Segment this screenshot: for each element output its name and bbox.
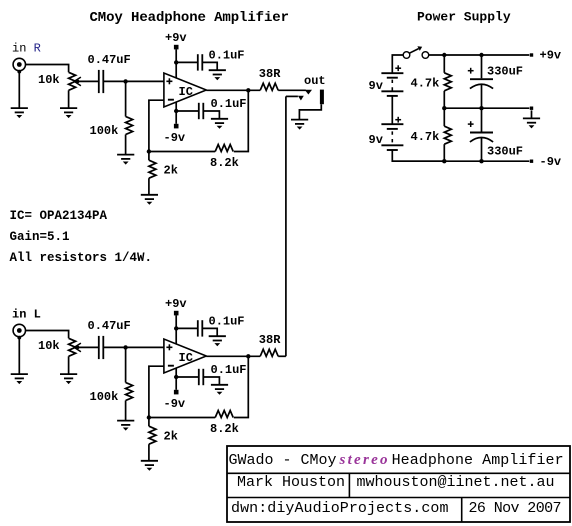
headphone jack body <box>320 90 324 105</box>
svg-text:9v: 9v <box>369 133 383 147</box>
ground <box>141 195 158 205</box>
wire cap to op-amp + input <box>103 80 164 82</box>
wire jack to pot top <box>26 65 69 73</box>
battery BT1 9v <box>381 65 403 96</box>
svg-text:out: out <box>304 74 326 88</box>
wire battery + to switch <box>392 55 403 73</box>
resistor 8.2k (feedback, R) <box>215 145 233 152</box>
svg-text:CMoy Headphone Amplifier: CMoy Headphone Amplifier <box>90 10 290 26</box>
ground <box>211 119 228 129</box>
svg-text:38R: 38R <box>259 67 281 81</box>
node -9v (V- pin) <box>164 368 186 411</box>
headphone jack tip contact <box>305 90 312 95</box>
node vground junction 2 <box>479 106 483 110</box>
svg-text:26 Nov 2007: 26 Nov 2007 <box>469 500 562 517</box>
resistor 100k (bias, L) <box>126 347 133 420</box>
wire cap to op-amp + input <box>103 346 164 348</box>
ground <box>11 108 28 118</box>
wire virtual ground rail <box>444 107 529 109</box>
resistor 38R (output, R) <box>260 83 278 90</box>
wire to ground symbol <box>531 110 533 118</box>
svg-text:100k: 100k <box>90 124 119 138</box>
capacitor 0.47uF (input coupling, R) <box>99 70 104 93</box>
wire op-amp output <box>206 89 260 91</box>
capacitor 0.1uF (V+ bypass, R) <box>176 54 217 70</box>
ground <box>211 385 228 395</box>
svg-text:330uF: 330uF <box>487 64 523 78</box>
svg-text:Power Supply: Power Supply <box>417 10 511 25</box>
svg-text:4.7k: 4.7k <box>411 130 440 144</box>
ground <box>117 155 134 165</box>
node junction (cap/100k/+in) <box>123 345 127 349</box>
svg-text:0.1uF: 0.1uF <box>209 314 245 328</box>
svg-text:0.1uF: 0.1uF <box>211 363 247 377</box>
svg-text:-9v: -9v <box>540 155 562 169</box>
resistor 2k (gain set, L) <box>149 418 156 461</box>
svg-text:8.2k: 8.2k <box>210 422 239 436</box>
svg-text:2k: 2k <box>164 430 178 444</box>
svg-text:4.7k: 4.7k <box>411 77 440 91</box>
svg-text:Gain=5.1: Gain=5.1 <box>10 230 70 244</box>
resistor 100k (bias, R) <box>126 81 133 154</box>
wire battery link <box>391 96 393 124</box>
resistor 8.2k (feedback, L) <box>215 411 233 418</box>
ground <box>523 118 540 128</box>
input jack J1 (in R) <box>13 58 25 73</box>
svg-text:9v: 9v <box>369 79 383 93</box>
resistor 4.7k (divider upper) <box>444 55 451 108</box>
node -9v rail junction 2 <box>479 159 483 163</box>
ground <box>291 120 308 130</box>
ground <box>60 108 77 118</box>
svg-text:IC= OPA2134PA: IC= OPA2134PA <box>10 209 108 223</box>
svg-text:Mark Houston: Mark Houston <box>237 474 345 491</box>
svg-text:10k: 10k <box>38 73 60 87</box>
capacitor 0.47uF (input coupling, L) <box>99 336 104 359</box>
svg-text:dwn:diyAudioProjects.com: dwn:diyAudioProjects.com <box>231 500 449 517</box>
wire riser from left channel 38R <box>285 96 287 356</box>
capacitor 0.1uF (V+ bypass, L) <box>176 320 217 336</box>
battery BT2 9v <box>381 117 403 150</box>
op-amp U1A (IC) <box>164 73 206 107</box>
node output junction <box>246 354 250 358</box>
title block row 3 text <box>231 500 562 517</box>
wire 38R to jack tip <box>278 89 306 91</box>
node junction (fb/2k/-in) <box>147 415 151 419</box>
capacitor 330uF (lower electrolytic) <box>468 108 493 161</box>
wire jack sleeve to ground <box>299 104 321 119</box>
node vground junction 1 <box>442 106 446 110</box>
svg-text:-9v: -9v <box>164 131 186 145</box>
wire to - input <box>149 100 164 151</box>
wire +9v rail <box>429 54 530 56</box>
wire jack to ground <box>18 337 20 374</box>
node -9v terminal <box>530 160 533 163</box>
wire feedback to - input <box>149 151 215 153</box>
title block frame <box>227 446 570 522</box>
svg-text:-9v: -9v <box>164 397 186 411</box>
headphone jack ring contact <box>286 96 304 101</box>
svg-text:0.1uF: 0.1uF <box>209 48 245 62</box>
node +9v rail junction 2 <box>479 53 483 57</box>
wire feedback to - input <box>149 417 215 419</box>
node output junction <box>246 88 250 92</box>
ground <box>11 374 28 384</box>
resistor 4.7k (divider lower) <box>444 108 451 161</box>
title block row 1 text <box>229 452 564 469</box>
svg-text:0.1uF: 0.1uF <box>211 97 247 111</box>
wire -9v rail <box>392 160 529 162</box>
op-amp U1B (IC) <box>164 339 206 373</box>
wire 38R to riser <box>278 355 286 357</box>
svg-text:mwhouston@iinet.net.au: mwhouston@iinet.net.au <box>357 474 555 491</box>
node junction (cap/100k/+in) <box>123 79 127 83</box>
svg-text:in R: in R <box>12 42 41 56</box>
svg-text:10k: 10k <box>38 339 60 353</box>
resistor 2k (gain set, R) <box>149 152 156 195</box>
capacitor 330uF (upper electrolytic) <box>468 55 493 108</box>
ground <box>141 461 158 471</box>
capacitor 0.1uF (V- bypass, R) <box>176 103 219 119</box>
ground <box>209 70 226 80</box>
svg-text:+9v: +9v <box>165 31 187 45</box>
wire battery - to -9v rail <box>392 150 444 161</box>
svg-text:100k: 100k <box>90 390 119 404</box>
switch SW1 (power) <box>403 46 429 58</box>
svg-text:38R: 38R <box>259 333 281 347</box>
potentiometer 10k (volume, R) <box>69 72 99 108</box>
svg-text:0.47uF: 0.47uF <box>88 319 131 333</box>
node +9v rail junction 1 <box>442 53 446 57</box>
capacitor 0.1uF (V- bypass, L) <box>176 369 219 385</box>
svg-text:IC: IC <box>179 351 193 365</box>
node junction (fb/2k/-in) <box>147 149 151 153</box>
wire feedback from output <box>234 356 249 417</box>
potentiometer 10k (volume, L) <box>69 338 99 374</box>
ground <box>60 374 77 384</box>
wire jack to pot top <box>26 331 69 339</box>
svg-text:Headphone Amplifier: Headphone Amplifier <box>392 452 564 469</box>
node +9v terminal <box>530 53 533 56</box>
input jack J2 (in L) <box>13 324 25 339</box>
node +9v (V+ pin) <box>165 297 187 344</box>
ground <box>209 336 226 346</box>
wire feedback from output <box>234 90 249 151</box>
node +9v (V+ pin) <box>165 31 187 78</box>
ground <box>117 421 134 431</box>
svg-text:2k: 2k <box>164 164 178 178</box>
svg-text:330uF: 330uF <box>487 144 523 158</box>
svg-text:+9v: +9v <box>165 297 187 311</box>
svg-text:All resistors 1/4W.: All resistors 1/4W. <box>10 251 153 265</box>
node -9v rail junction 1 <box>442 159 446 163</box>
svg-text:+9v: +9v <box>540 49 562 63</box>
svg-text:0.47uF: 0.47uF <box>88 53 131 67</box>
title block row 2 text <box>237 474 555 491</box>
resistor 38R (output, L) <box>260 349 278 356</box>
node -9v (V- pin) <box>164 102 186 145</box>
svg-text:IC: IC <box>179 85 193 99</box>
svg-text:GWado - CMoy: GWado - CMoy <box>229 452 337 469</box>
svg-text:in L: in L <box>12 308 41 322</box>
svg-text:8.2k: 8.2k <box>210 156 239 170</box>
node vground terminal <box>530 107 533 110</box>
wire op-amp output <box>206 355 260 357</box>
wire jack to ground <box>18 71 20 108</box>
wire to - input <box>149 366 164 417</box>
